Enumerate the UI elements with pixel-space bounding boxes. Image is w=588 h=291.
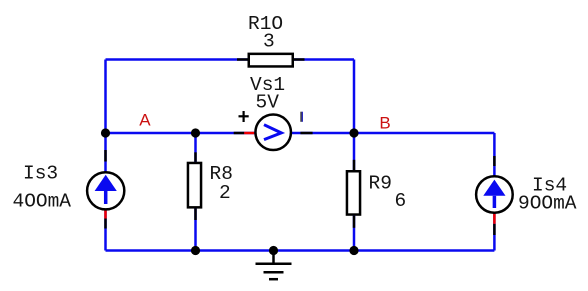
svg-text:R9: R9 [369,172,392,194]
svg-text:A: A [139,111,151,130]
svg-text:6: 6 [395,190,407,212]
svg-text:3: 3 [263,31,275,53]
svg-text:4OOmA: 4OOmA [13,190,72,212]
svg-text:5V: 5V [256,91,280,113]
svg-text:2: 2 [219,182,231,204]
svg-text:Is3: Is3 [23,162,58,184]
svg-text:9OOmA: 9OOmA [518,193,577,215]
svg-text:B: B [379,113,390,132]
